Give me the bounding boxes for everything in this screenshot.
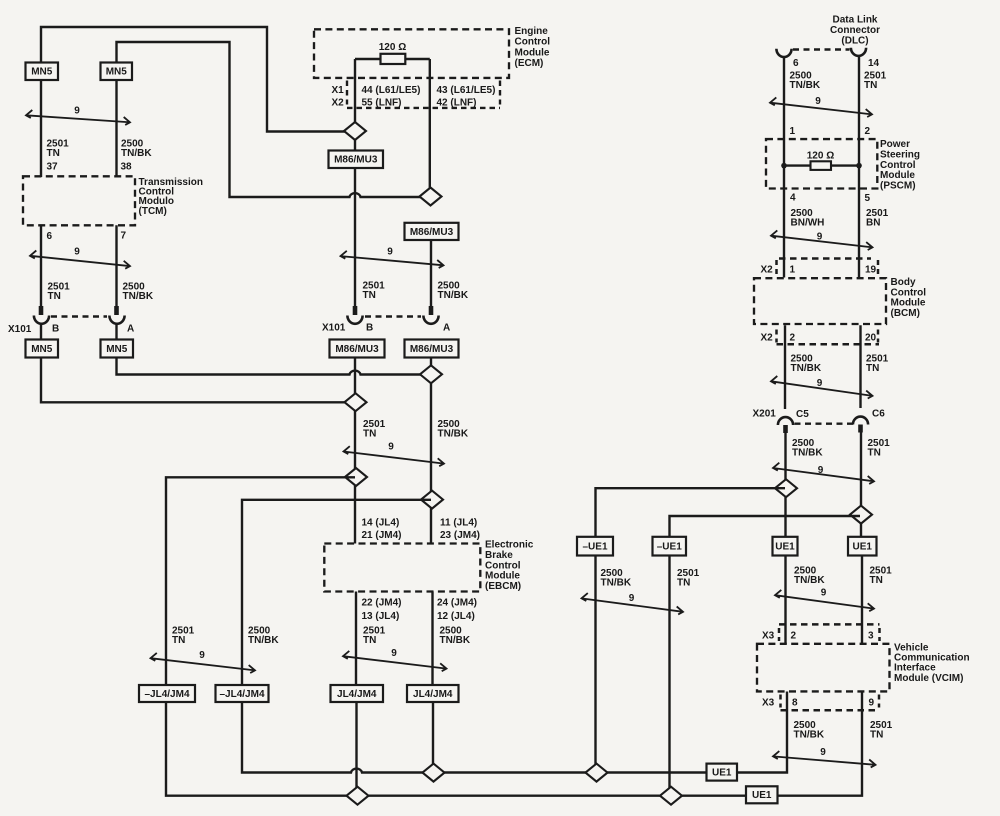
connector X101 dashed link (middle) — [365, 315, 421, 317]
connector DLC cavity 6 socket — [776, 49, 791, 57]
wire PSCM internal to resistor (left) — [784, 164, 811, 166]
twisted pair indicator 9 (below X201) — [773, 463, 874, 484]
connector pin box ECM dashed — [347, 81, 500, 108]
connector X201 dashed link — [795, 423, 854, 425]
wire 2501 TN from BCM pin 20 to X201 C6 — [859, 325, 861, 408]
svg-text:X3: X3 — [762, 630, 775, 641]
svg-text:9: 9 — [74, 106, 80, 117]
svg-text:X101: X101 — [8, 324, 32, 335]
connector X101 terminal A pin stub — [114, 306, 119, 315]
wire 2501 TN from TCM pin 6 to X101 B — [40, 225, 42, 307]
wire 2501 TN branch from splice S8 to -UE1 — [670, 516, 861, 537]
connector row X3 upper (VCIM) dashed edges — [779, 623, 880, 626]
wire 2501 TN branch from splice S5 to -JL4/JM4 — [166, 477, 355, 685]
connector X201 terminal C5 pin stub — [783, 425, 788, 433]
svg-text:9: 9 — [388, 442, 394, 453]
module BCM dashed box — [754, 278, 886, 324]
svg-text:13 (JL4): 13 (JL4) — [362, 611, 400, 622]
module ECM dashed box — [314, 29, 509, 78]
twisted pair indicator 9 (middle upper) — [341, 247, 444, 268]
twisted pair indicator 9 (bottom left pair) — [151, 650, 256, 673]
svg-text:9: 9 — [869, 698, 875, 709]
splice S5 diamond — [345, 468, 367, 486]
wire 2500 TN/BK from TCM pin 7 to X101 A — [115, 225, 117, 307]
svg-text:2: 2 — [791, 630, 797, 641]
svg-text:12 (JL4): 12 (JL4) — [437, 611, 475, 622]
wire 2501 TN from -UE1 down to bus splice S12 — [668, 556, 670, 796]
svg-text:X1: X1 — [332, 85, 345, 96]
svg-text:X101: X101 — [322, 323, 346, 334]
wire 2500 TN/BK into TCM pin 38 — [115, 80, 117, 177]
twisted pair indicator 9 (below BCM) — [771, 376, 873, 399]
svg-text:19: 19 — [865, 265, 877, 276]
in-line connector M86/MU3 (lower second) — [405, 340, 459, 358]
svg-text:JL4/JM4: JL4/JM4 — [337, 689, 377, 700]
module TCM dashed box — [23, 176, 135, 225]
svg-text:X2: X2 — [761, 265, 774, 276]
svg-text:120 Ω: 120 Ω — [379, 42, 406, 53]
svg-text:9: 9 — [817, 378, 823, 389]
connector X201 terminal C5 socket — [778, 417, 793, 425]
wire ECM pin 44 branch down to splice S1 — [354, 59, 356, 151]
connector X101 terminal A socket (middle) — [423, 316, 438, 324]
in-line connector MN5 (lower second) — [101, 340, 134, 358]
svg-text:1: 1 — [790, 265, 796, 276]
svg-text:24 (JM4): 24 (JM4) — [437, 597, 477, 608]
svg-text:22 (JM4): 22 (JM4) — [362, 597, 402, 608]
svg-text:M86/MU3: M86/MU3 — [334, 155, 378, 166]
svg-text:42 (LNF): 42 (LNF) — [437, 98, 477, 109]
svg-text:2: 2 — [790, 332, 796, 343]
splice S4 diamond — [345, 393, 367, 411]
connector X101 terminal A pin stub (middle) — [429, 306, 434, 315]
splice S11 diamond (bus junction) — [347, 787, 369, 805]
svg-text:–JL4/JM4: –JL4/JM4 — [144, 689, 189, 700]
svg-text:6: 6 — [47, 231, 53, 242]
wire from X101 B to MN5 (lower left) — [40, 324, 42, 341]
splice S7 diamond — [775, 479, 797, 497]
twisted pair indicator 9 (below VCIM) — [773, 747, 876, 768]
svg-text:–UE1: –UE1 — [657, 542, 682, 553]
in-line connector UE1 (third) — [773, 537, 798, 556]
svg-text:9: 9 — [199, 650, 205, 661]
svg-text:9: 9 — [387, 247, 393, 258]
twisted pair indicator 9 (TCM upper) — [26, 106, 130, 125]
splice S1 diamond (below ECM pin 44) — [344, 122, 366, 140]
svg-text:UE1: UE1 — [752, 790, 772, 801]
svg-text:UE1: UE1 — [775, 542, 795, 553]
svg-text:44 (L61/LE5): 44 (L61/LE5) — [362, 85, 421, 96]
svg-text:–JL4/JM4: –JL4/JM4 — [219, 689, 264, 700]
svg-text:9: 9 — [629, 593, 635, 604]
twisted pair indicator 9 (below PSCM) — [771, 230, 873, 250]
in-line connector M86/MU3 (upper first) — [329, 151, 384, 169]
connector row X3 lower (VCIM) dashed edges — [781, 709, 880, 712]
wire 2500 TN/BK from BCM pin 2 to X201 C5 — [784, 325, 786, 409]
in-line connector UE1 (on 2500 bus) — [707, 764, 738, 781]
in-line connector JL4/JM4 (fourth) — [407, 685, 459, 702]
wire bus 2501 TN (lowest) from -JL4/JM4 to VCIM X3 pin 9 — [166, 692, 862, 796]
connector X101 terminal B pin stub — [39, 306, 44, 315]
in-line connector M86/MU3 (lower first) — [330, 340, 385, 358]
connector row X2 upper (BCM) dashed edges — [779, 257, 871, 260]
svg-text:38: 38 — [121, 162, 133, 173]
svg-text:MN5: MN5 — [31, 67, 53, 78]
svg-text:4: 4 — [790, 192, 796, 203]
splice S2 diamond (below ECM pin 43) — [420, 188, 442, 206]
junction dot PSCM pin 1 wire — [781, 163, 787, 169]
svg-text:MN5: MN5 — [31, 344, 53, 355]
svg-text:X2: X2 — [332, 98, 345, 109]
svg-text:9: 9 — [74, 247, 80, 258]
svg-text:X2: X2 — [761, 332, 774, 343]
svg-text:14 (JL4): 14 (JL4) — [362, 517, 400, 528]
in-line connector -UE1 (first) — [577, 537, 613, 556]
twisted pair indicator 9 (above EBCM) — [344, 442, 445, 467]
in-line connector UE1 (fourth) — [848, 537, 877, 556]
connector X101 terminal B socket (middle) — [347, 316, 362, 324]
svg-text:MN5: MN5 — [106, 67, 128, 78]
junction dot PSCM pin 2 wire — [856, 163, 862, 169]
connector X201 terminal C6 pin stub — [858, 425, 863, 433]
splice S6 diamond — [421, 491, 443, 509]
twisted pair indicator 9 (UE1 right pair) — [775, 588, 874, 612]
in-line connector MN5 (lower left) — [26, 340, 59, 358]
svg-text:55 (LNF): 55 (LNF) — [362, 98, 402, 109]
wire 2500 TN/BK from X201 C5 to UE1 — [784, 433, 786, 537]
wire ECM internal right to resistor — [405, 58, 430, 60]
svg-text:JL4/JM4: JL4/JM4 — [413, 689, 453, 700]
wire UE1 fourth down to VCIM X3 pin 3 — [861, 556, 863, 645]
wire PSCM internal to resistor (right) — [831, 164, 859, 166]
svg-text:UE1: UE1 — [712, 768, 732, 779]
in-line connector M86/MU3 (upper second) — [405, 223, 459, 240]
svg-text:11 (JL4): 11 (JL4) — [440, 517, 477, 528]
in-line connector -JL4/JM4 (first) — [139, 685, 195, 702]
svg-text:UE1: UE1 — [853, 542, 873, 553]
connector DLC dashed link — [793, 48, 850, 50]
svg-text:6: 6 — [793, 58, 799, 69]
wire 2501 TN trunk from M86/MU3 down to EBCM pin 14/21 — [354, 358, 356, 544]
svg-text:B: B — [366, 323, 373, 334]
svg-text:5: 5 — [865, 193, 871, 204]
in-line connector JL4/JM4 (third) — [331, 685, 384, 702]
wire 2500 TN/BK from EBCM pin 24/12 down — [431, 592, 433, 686]
wire 2500 TN/BK trunk from M86/MU3 down to EBCM pin 11/23 — [430, 358, 432, 544]
twisted pair indicator 9 (bottom middle pair) — [343, 648, 447, 671]
wire 2500 TN/BK from -UE1 down to bus splice S10 — [594, 556, 596, 773]
svg-text:23 (JM4): 23 (JM4) — [440, 530, 480, 541]
wire 2500 TN/BK from DLC pin 6 to PSCM pin 1 — [783, 57, 785, 278]
wire 2501 TN from splice S1 to connector MN5 (top left) — [41, 27, 355, 132]
svg-text:3: 3 — [868, 630, 874, 641]
in-line connector MN5 (upper left) — [26, 63, 59, 81]
wire UE1 third down to VCIM X3 pin 2 — [784, 556, 786, 645]
svg-text:1: 1 — [790, 126, 796, 137]
twisted pair indicator 9 (UE1 left pair) — [582, 593, 684, 615]
svg-text:9: 9 — [820, 747, 826, 758]
svg-text:A: A — [443, 323, 450, 334]
svg-text:X3: X3 — [762, 698, 775, 709]
svg-text:M86/MU3: M86/MU3 — [410, 227, 454, 238]
svg-text:M86/MU3: M86/MU3 — [410, 344, 454, 355]
connector X201 terminal C6 socket — [853, 417, 868, 425]
wire 2500 TN/BK branch from splice S7 to -UE1 — [596, 488, 786, 537]
in-line connector -UE1 (second) — [653, 537, 687, 556]
splice S9 diamond (bus junction) — [423, 764, 445, 782]
module PSCM dashed box — [766, 139, 877, 188]
svg-text:2: 2 — [865, 126, 871, 137]
wire JL4/JM4 third down to bus — [355, 702, 357, 796]
svg-text:43 (L61/LE5): 43 (L61/LE5) — [437, 85, 496, 96]
svg-text:21 (JM4): 21 (JM4) — [362, 530, 402, 541]
wire 2500 TN/BK branch from splice S6 to -JL4/JM4 — [242, 500, 431, 685]
wire from X101 A to MN5 (lower second) — [115, 324, 117, 341]
splice S12 diamond (bus) — [660, 787, 682, 805]
svg-text:14: 14 — [868, 58, 880, 69]
module EBCM dashed box — [324, 544, 480, 592]
wire ECM internal left to resistor — [355, 58, 381, 60]
svg-text:C6: C6 — [872, 409, 885, 420]
svg-text:9: 9 — [391, 648, 397, 659]
wire 2501 TN from DLC pin 14 to PSCM pin 2 — [858, 56, 860, 278]
wire bus 2500 TN/BK (lower) from -JL4/JM4 to VCIM X3 pin 8 — [242, 692, 787, 773]
resistor 120 ohm (ECM) — [381, 54, 406, 64]
svg-text:MN5: MN5 — [106, 344, 128, 355]
svg-text:X201: X201 — [753, 409, 777, 420]
svg-text:20: 20 — [865, 332, 877, 343]
svg-text:8: 8 — [792, 698, 798, 709]
wire 2501 TN below M86/MU3 to X101 — [354, 168, 356, 307]
svg-text:9: 9 — [818, 465, 824, 476]
connector row X2 lower (BCM) dashed edges — [777, 343, 880, 346]
connector DLC cavity 14 socket — [851, 48, 866, 56]
wire 2501 TN from EBCM pin 22/13 down — [355, 592, 357, 686]
svg-text:–UE1: –UE1 — [582, 542, 607, 553]
wire 2501 TN into TCM pin 37 — [40, 80, 42, 177]
svg-text:A: A — [127, 324, 134, 335]
module VCIM dashed box — [757, 644, 890, 692]
wire 2500 TN/BK below M86/MU3 to X101 — [430, 240, 432, 307]
svg-text:9: 9 — [817, 231, 823, 242]
wire ECM pin 43 branch down to splice S2 — [429, 59, 431, 197]
wire 2500 TN/BK from MN5 to splice S3 — [117, 358, 432, 375]
splice S3 diamond — [420, 365, 442, 383]
splice S8 diamond — [850, 506, 872, 524]
wire 2501 TN from X201 C6 to UE1 — [860, 433, 862, 537]
wire 2501 TN from MN5 to splice S4 — [41, 358, 355, 403]
svg-text:9: 9 — [821, 588, 827, 599]
svg-text:37: 37 — [47, 162, 59, 173]
svg-text:9: 9 — [815, 96, 821, 107]
twisted pair indicator 9 (TCM lower) — [30, 247, 130, 269]
svg-text:M86/MU3: M86/MU3 — [335, 344, 379, 355]
splice S10 diamond (bus) — [586, 764, 608, 782]
svg-text:B: B — [52, 324, 59, 335]
connector X101 terminal A socket — [109, 316, 124, 324]
in-line connector -JL4/JM4 (second) — [216, 685, 269, 702]
connector X101 terminal B socket — [34, 316, 49, 324]
svg-text:120 Ω: 120 Ω — [807, 150, 834, 161]
twisted pair indicator 9 (DLC) — [770, 96, 872, 117]
wire JL4/JM4 fourth down to bus — [432, 702, 434, 773]
svg-text:C5: C5 — [796, 409, 809, 420]
connector X101 dashed link (left) — [51, 315, 107, 317]
connector X101 terminal B pin stub (middle) — [353, 306, 358, 315]
resistor 120 ohm (PSCM) — [811, 161, 832, 170]
in-line connector MN5 (upper second) — [101, 63, 133, 81]
svg-text:7: 7 — [121, 231, 127, 242]
wire 2500 TN/BK from splice S2 to connector MN5 (second) — [117, 42, 432, 197]
in-line connector UE1 (on 2501 bus) — [746, 786, 778, 803]
